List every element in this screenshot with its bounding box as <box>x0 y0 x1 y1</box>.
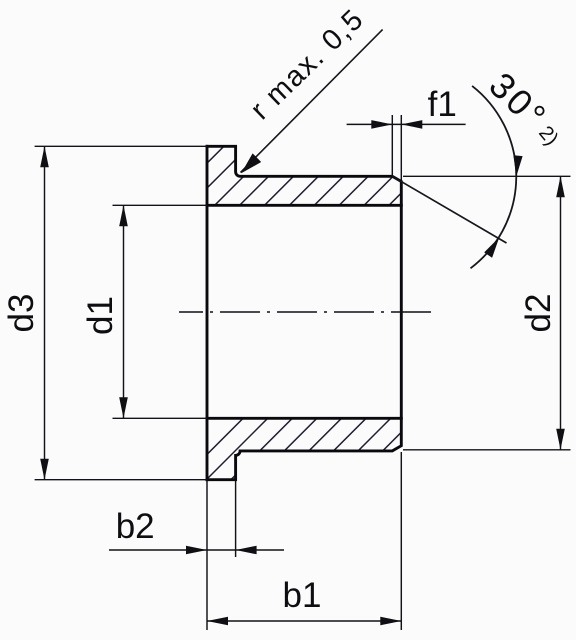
svg-text:b2: b2 <box>116 507 155 546</box>
svg-text:d3: d3 <box>2 294 41 333</box>
svg-text:d1: d1 <box>81 296 120 335</box>
svg-text:d2: d2 <box>519 294 558 333</box>
svg-text:b1: b1 <box>283 576 322 615</box>
svg-text:f1: f1 <box>428 85 457 124</box>
